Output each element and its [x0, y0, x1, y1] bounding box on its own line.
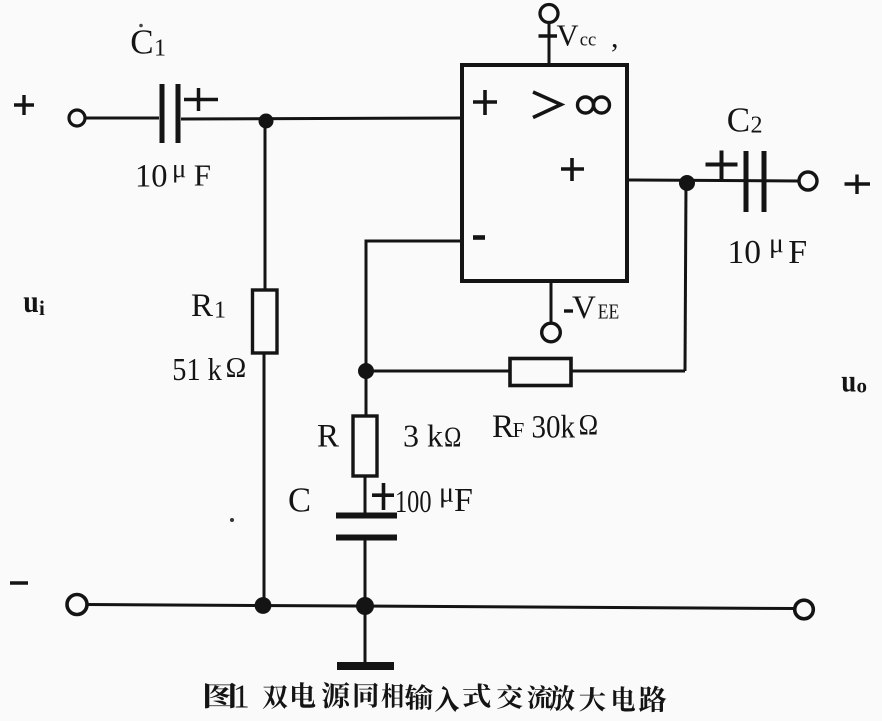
- wire terminal to C1: [85, 117, 159, 120]
- svg-text:F: F: [194, 157, 211, 192]
- op-amp gain symbol >: [533, 92, 561, 118]
- node E bottom junction ground: [356, 597, 374, 615]
- svg-text:μ: μ: [769, 227, 784, 258]
- node B feedback junction: [358, 363, 374, 379]
- VEE terminal: [542, 323, 561, 342]
- svg-text:Ω: Ω: [226, 352, 247, 384]
- op-amp infinity symbol: [578, 97, 594, 113]
- wire inverting input: [366, 241, 462, 371]
- svg-text:R: R: [317, 419, 339, 455]
- C polarity plus: [372, 493, 394, 497]
- Vcc terminal: [540, 5, 558, 23]
- bottom-right terminal: [795, 600, 814, 619]
- svg-text:u: u: [841, 363, 856, 399]
- svg-text:3 k: 3 k: [403, 418, 443, 454]
- svg-text:μ: μ: [439, 478, 454, 509]
- svg-text:EE: EE: [598, 300, 620, 324]
- resistor RF: [510, 359, 571, 386]
- node C output junction: [679, 175, 695, 191]
- input plus sign left: [14, 103, 34, 106]
- bottom rail wire: [87, 605, 795, 609]
- op-amp U1 body: [462, 65, 627, 281]
- wire node B to RF: [366, 370, 510, 373]
- svg-text:V: V: [572, 290, 596, 326]
- svg-text:C: C: [288, 482, 311, 520]
- resistor R: [353, 416, 377, 476]
- svg-text:100: 100: [395, 483, 432, 519]
- op-amp minus input sign: [473, 235, 485, 240]
- capacitor C2: [744, 151, 749, 212]
- VEE pin wire: [550, 281, 553, 323]
- Vcc plus dash: [539, 34, 558, 37]
- input terminal top-left: [69, 110, 85, 126]
- svg-text:C: C: [727, 101, 750, 140]
- svg-text:1: 1: [154, 36, 166, 62]
- wire C to bottom rail: [364, 540, 367, 606]
- svg-text:51 k: 51 k: [172, 351, 222, 387]
- svg-text:cc: cc: [580, 29, 597, 50]
- node A junction input: [259, 114, 274, 129]
- svg-text:F: F: [454, 482, 473, 519]
- resistor R1: [253, 290, 278, 353]
- svg-text:R: R: [191, 288, 213, 324]
- caption text: [205, 683, 236, 709]
- svg-text:1: 1: [214, 298, 226, 324]
- svg-text:10: 10: [135, 159, 168, 195]
- capacitor C1: [160, 84, 165, 143]
- svg-text:u: u: [23, 283, 39, 319]
- wire node B to R: [365, 371, 368, 416]
- speck dot top: [139, 24, 143, 28]
- C1 polarity plus: [184, 98, 218, 102]
- wire node A to R1: [264, 121, 267, 290]
- label VEE minus: [564, 309, 573, 312]
- svg-text:2: 2: [751, 113, 763, 139]
- svg-text:R: R: [492, 409, 514, 445]
- svg-text:,: ,: [611, 21, 619, 54]
- op-amp output plus sign: [561, 167, 584, 171]
- svg-text:Ω: Ω: [579, 410, 599, 442]
- svg-text:o: o: [857, 374, 868, 398]
- speck dot middle: [230, 518, 234, 522]
- Vcc pin wire: [548, 23, 551, 65]
- wire C1 to op-amp noninverting input: [181, 118, 462, 119]
- svg-text:1: 1: [233, 679, 250, 716]
- wire R1 to bottom rail: [263, 353, 266, 606]
- wire op-amp output: [627, 180, 799, 181]
- svg-text:F: F: [788, 234, 807, 271]
- svg-text:10: 10: [728, 234, 762, 271]
- svg-text:30k: 30k: [532, 410, 576, 446]
- node D bottom junction R1: [255, 597, 272, 614]
- output plus sign: [845, 182, 871, 185]
- capacitor C plates: [336, 513, 397, 519]
- svg-text:C: C: [130, 23, 153, 62]
- output terminal right: [799, 172, 817, 190]
- input minus sign left: [10, 581, 28, 584]
- svg-text:μ: μ: [172, 153, 186, 183]
- op-amp plus input sign: [473, 100, 497, 104]
- wire RF to output node: [571, 370, 685, 373]
- wire feedback vertical: [685, 181, 686, 371]
- svg-text:V: V: [557, 19, 579, 53]
- wire R to C: [364, 476, 367, 513]
- bottom-left terminal: [67, 595, 87, 615]
- ground: [364, 606, 367, 662]
- svg-text:Ω: Ω: [444, 422, 461, 454]
- svg-text:F: F: [513, 418, 525, 442]
- C2 polarity plus: [706, 163, 738, 167]
- svg-text:i: i: [39, 296, 45, 320]
